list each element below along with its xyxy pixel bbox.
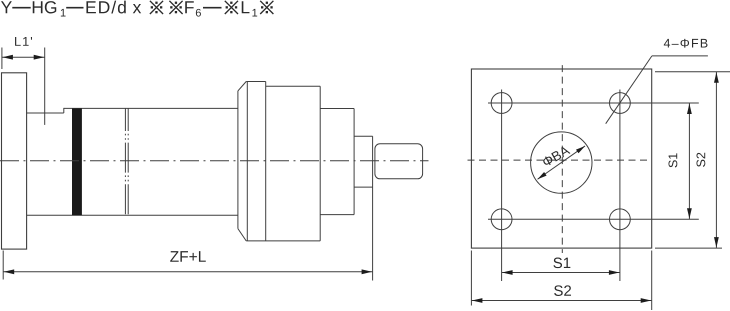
hidden port dashed lines — [124, 108, 126, 215]
gland block — [320, 108, 354, 110]
dimension S1 right side — [688, 103, 690, 219]
head block top edge — [266, 85, 321, 87]
barrel bottom edge — [27, 214, 238, 216]
black seal band — [72, 108, 82, 215]
rod end cap — [375, 144, 423, 179]
dimension L1 — [1, 48, 3, 70]
bolt hole bottom-left — [491, 209, 512, 230]
bolt hole centerline column right — [619, 90, 621, 282]
title text Y-HG1-ED/d x *F6-*L1* — [1, 1, 273, 17]
dimension S2 right side — [655, 71, 730, 73]
collar chamfer bottom — [238, 229, 246, 241]
horizontal dashed centerline — [468, 159, 652, 161]
ring left edge — [246, 82, 248, 241]
leader line — [652, 55, 708, 57]
collar chamfer top — [238, 82, 246, 91]
cylinder cap top edge — [27, 112, 64, 114]
flange plate (front view) — [471, 69, 651, 248]
bore diameter arrow PhiBA — [538, 146, 586, 179]
ring right edge — [265, 82, 267, 241]
barrel top edge — [64, 107, 238, 109]
label 4-PhiFB — [664, 39, 708, 48]
ring top edge — [246, 81, 266, 83]
bolt hole centerline row bottom — [488, 218, 699, 220]
head/ring bottom edge — [246, 240, 320, 242]
dimension ZF+L — [2, 251, 4, 280]
bolt hole top-right — [610, 93, 631, 114]
rod spacer block — [354, 135, 373, 137]
collar left face — [237, 91, 239, 229]
bolt hole centerline row top — [488, 102, 699, 104]
vertical dashed centerline — [561, 65, 563, 253]
dimension S1 bottom — [502, 272, 620, 274]
bolt hole centerline column left — [501, 90, 503, 282]
head block right edge — [319, 86, 321, 241]
flange plate (side view) — [2, 73, 27, 249]
cap/barrel step — [63, 108, 65, 113]
bolt hole top-left — [491, 93, 512, 114]
bore circle — [531, 132, 592, 193]
centerline (side view) — [0, 160, 429, 162]
dimension S2 bottom — [470, 251, 472, 306]
bolt hole bottom-right — [610, 209, 631, 230]
